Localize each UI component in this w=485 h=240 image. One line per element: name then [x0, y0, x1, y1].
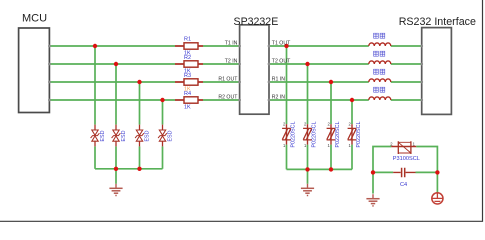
ferrite bead 2 label 磁珠 [374, 51, 385, 56]
wire down from node on wire1 to D1 [286, 46, 288, 124]
ferrite bead 3 label 磁珠 [374, 69, 385, 74]
pin dot SP3232E R2 OUT [238, 99, 241, 102]
ground (ESD group) [109, 184, 122, 196]
node subcircuit left / C4 [371, 170, 375, 174]
svg-text:R1: R1 [184, 36, 191, 42]
resistor R4 [175, 91, 203, 111]
ferrite bead 1 [369, 43, 391, 46]
earth symbol [432, 193, 443, 204]
wire MCU to R4 [49, 99, 175, 101]
svg-text:2: 2 [349, 122, 352, 127]
pin dot MCU pin 4 [48, 99, 51, 102]
svg-text:ESD: ESD [144, 130, 150, 141]
capacitor C4 [393, 168, 415, 188]
node TVS common / D3 [329, 167, 333, 171]
wire MCU to R1 [49, 45, 175, 47]
wire C4 to right vertical [416, 171, 438, 173]
svg-text:2: 2 [328, 122, 331, 127]
pin dot SP3232E T2 IN [238, 63, 241, 66]
wire bead L3 to RS232 [391, 81, 422, 83]
ferrite bead 2 [369, 61, 391, 64]
wire ESD1 to common gnd wire [94, 146, 96, 168]
node TVS common / gnd [305, 167, 309, 171]
wire ESD4 to common gnd wire [162, 146, 164, 168]
wire down from node on wire2 to ESD2 [115, 64, 117, 125]
pin dot RS232 pin 1 [420, 45, 423, 48]
svg-text:R2: R2 [184, 55, 191, 61]
svg-text:P0220SCL: P0220SCL [356, 122, 362, 148]
pin dot SP3232E T2 OUT [268, 63, 271, 66]
svg-text:1: 1 [328, 143, 331, 148]
svg-text:1K: 1K [184, 104, 191, 110]
SP3232E box [240, 25, 269, 114]
wire bead L4 to RS232 [391, 99, 422, 101]
pin dot SP3232E R2 IN [268, 99, 271, 102]
node wire1/ESD1 [93, 44, 97, 48]
wire SP3232E T2OUT to bead L2 [269, 63, 369, 65]
esd diode 3 [135, 125, 150, 147]
wire down from node on wire4 to ESD4 [162, 100, 164, 125]
pin dot RS232 pin 2 [420, 63, 423, 66]
svg-text:2: 2 [283, 122, 286, 127]
ferrite bead 3 [369, 79, 391, 82]
svg-text:ESD: ESD [121, 130, 127, 141]
pin dot SP3232E T1 OUT [268, 45, 271, 48]
pin dot SP3232E R1 IN [268, 81, 271, 84]
svg-text:1: 1 [304, 143, 307, 148]
tvs P3100SCL [390, 141, 420, 162]
wire down from node on wire4 to D4 [351, 100, 353, 124]
wire P3100SCL to top-right corner [416, 147, 437, 173]
svg-text:1: 1 [283, 143, 286, 148]
node subcircuit right / C4 [435, 170, 439, 174]
node wire1/D1 [284, 44, 288, 48]
svg-text:ESD: ESD [100, 130, 106, 141]
wire D2 to common gnd wire [307, 145, 309, 170]
svg-text:R2 OUT: R2 OUT [218, 94, 238, 100]
node wire2/D2 [305, 62, 309, 66]
wire R4 to SP3232E R2OUT [203, 99, 240, 101]
tvs diode 3 P0220SCL [327, 122, 341, 148]
common ground wire of TVS group [287, 168, 353, 170]
wire bead L1 to RS232 [391, 45, 422, 47]
wire left vertical to C4 [373, 171, 393, 173]
wire left vertical down to ground [372, 172, 374, 193]
wire common to ground stem [115, 169, 117, 184]
svg-text:T2 IN: T2 IN [225, 58, 238, 64]
node wire4/D4 [350, 98, 354, 102]
wire SP3232E R1IN to bead L3 [269, 81, 369, 83]
svg-text:P0220SCL: P0220SCL [291, 122, 297, 148]
svg-text:MCU: MCU [22, 12, 47, 24]
svg-text:T2 OUT: T2 OUT [272, 58, 291, 64]
wire down from node on wire1 to ESD1 [94, 46, 96, 125]
wire D1 to common gnd wire [286, 145, 288, 170]
svg-text:2: 2 [390, 141, 393, 146]
svg-text:R1 OUT: R1 OUT [218, 76, 238, 82]
node ESD common / ESD3 [137, 167, 141, 171]
node wire2/ESD2 [114, 62, 118, 66]
wire down from node on wire3 to D3 [330, 82, 332, 124]
tvs diode 4 P0220SCL [348, 122, 362, 148]
svg-text:P0220SCL: P0220SCL [312, 122, 318, 148]
wire SP3232E R2IN to bead L4 [269, 99, 369, 101]
pin dot SP3232E R1 OUT [238, 81, 241, 84]
RS232 Interface box [422, 28, 452, 115]
wire common to middle ground stem [307, 169, 309, 183]
ferrite bead 4 label 磁珠 [374, 87, 385, 92]
ground (subcircuit) [366, 194, 379, 206]
svg-text:ESD: ESD [167, 130, 173, 141]
svg-text:R3: R3 [184, 73, 191, 79]
svg-text:R4: R4 [184, 91, 191, 97]
wire D4 to common gnd wire [351, 145, 353, 170]
node wire3/ESD3 [137, 80, 141, 84]
svg-text:P0220SCL: P0220SCL [335, 122, 341, 148]
wire top-left corner to P3100SCL [373, 147, 391, 173]
wire D3 to common gnd wire [330, 145, 332, 170]
pin dot MCU pin 2 [48, 63, 51, 66]
pin dot RS232 pin 3 [420, 81, 423, 84]
pin dot SP3232E T1 IN [238, 45, 241, 48]
svg-text:SP3232E: SP3232E [234, 16, 279, 28]
MCU box [19, 28, 50, 113]
ground (TVS group) [301, 184, 314, 196]
tvs diode 1 P0220SCL [282, 122, 296, 148]
wire bead L2 to RS232 [391, 63, 422, 65]
resistor R1 [175, 36, 203, 56]
wire R1 to SP3232E T1IN [203, 45, 240, 47]
esd diode 2 [112, 125, 127, 147]
pin dot MCU pin 1 [48, 45, 51, 48]
esd diode 1 [91, 125, 106, 147]
svg-text:1: 1 [349, 143, 352, 148]
wire right vertical down to earth [436, 172, 438, 193]
resistor R2 [175, 55, 203, 75]
wire down from node on wire3 to ESD3 [139, 82, 141, 125]
wire MCU to R3 [49, 81, 175, 83]
svg-text:C4: C4 [400, 182, 407, 188]
node wire4/ESD4 [160, 98, 164, 102]
svg-text:T1 IN: T1 IN [225, 40, 238, 46]
node ESD common / gnd [114, 167, 118, 171]
svg-text:P3100SCL: P3100SCL [393, 156, 420, 162]
esd diode 4 [158, 125, 173, 147]
svg-text:R2 IN: R2 IN [272, 94, 286, 100]
svg-text:R1 IN: R1 IN [272, 76, 286, 82]
wire R2 to SP3232E T2IN [203, 63, 240, 65]
svg-text:2: 2 [304, 122, 307, 127]
wire MCU to R2 [49, 63, 175, 65]
tvs diode 2 P0220SCL [303, 122, 317, 148]
wire ESD2 to common gnd wire [115, 146, 117, 168]
svg-text:T1 OUT: T1 OUT [272, 40, 291, 46]
wire R3 to SP3232E R1OUT [203, 81, 240, 83]
wire down from node on wire2 to D2 [307, 64, 309, 124]
ferrite bead 1 label 磁珠 [374, 33, 385, 38]
ferrite bead 4 [369, 97, 391, 100]
wire SP3232E T1OUT to bead L1 [269, 45, 369, 47]
svg-text:RS232 Interface: RS232 Interface [399, 16, 476, 28]
pin dot RS232 pin 4 [420, 99, 423, 102]
resistor R3 [175, 73, 203, 93]
pin dot MCU pin 3 [48, 81, 51, 84]
node wire3/D3 [329, 80, 333, 84]
wire ESD3 to common gnd wire [139, 146, 141, 168]
svg-text:1: 1 [413, 141, 416, 146]
common ground wire of ESD group [95, 168, 163, 170]
